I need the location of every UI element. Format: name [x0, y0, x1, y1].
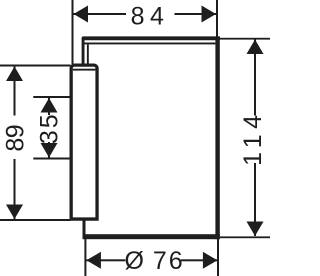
dim-35 dimension line top segment [48, 98, 50, 115]
dim-114 dimension line bottom segment [254, 163, 256, 236]
tumbler left wall lower [83, 221, 86, 236]
dim-84 dimension line right segment [175, 13, 217, 15]
svg-text:114: 114 [239, 109, 267, 165]
tumbler left wall upper inner line [87, 44, 89, 64]
svg-text:Ø 76: Ø 76 [124, 247, 184, 275]
dim-114 top extension line [220, 38, 271, 40]
dim-114 down arrowhead [247, 222, 264, 237]
holder bracket outer outline [71, 65, 97, 219]
tumbler right wall [215, 36, 219, 239]
tumbler rim inner line [85, 43, 216, 45]
dim-84 right arrowhead [202, 6, 217, 23]
dim-114 dimension line top segment [254, 40, 256, 116]
dim-89 dimension line top segment [14, 67, 16, 116]
dim-35 down arrowhead [41, 143, 58, 158]
dim-35 dimension line bottom segment [48, 142, 50, 158]
dim-84 dimension line left segment [74, 13, 127, 15]
svg-text:35: 35 [36, 112, 64, 144]
dim-76 left arrowhead [86, 252, 101, 269]
dim-89 top extension line [0, 65, 71, 67]
dim-84 right extension line [216, 0, 218, 37]
dim-89 bottom extension line [0, 219, 71, 221]
dim-35 up arrowhead [41, 98, 58, 113]
dim-89 dimension line bottom segment [14, 159, 16, 219]
svg-text:84: 84 [131, 2, 170, 30]
dim-35 top extension line [33, 96, 71, 98]
dim-76 right arrowhead [203, 252, 218, 269]
dim-84 left extension line [72, 0, 74, 64]
dim-76 left extension line [84, 239, 86, 276]
svg-text:89: 89 [1, 125, 29, 152]
dim-76 dimension line right segment [181, 259, 217, 261]
dim-76 dimension line left segment [86, 259, 125, 261]
dim-76 right extension line [217, 239, 219, 276]
dim-114 bottom extension line [220, 236, 270, 238]
tumbler rim top bar [82, 36, 220, 40]
dim-114 up arrowhead [247, 40, 264, 55]
tumbler left wall upper outer [82, 38, 85, 64]
holder bracket inner top line [73, 69, 96, 71]
dim-89 up arrowhead [6, 67, 23, 82]
dim-35 bottom extension line [33, 158, 71, 160]
tumbler bottom bar [83, 234, 220, 239]
dim-89 down arrowhead [6, 205, 23, 220]
dim-84 left arrowhead [74, 6, 89, 23]
